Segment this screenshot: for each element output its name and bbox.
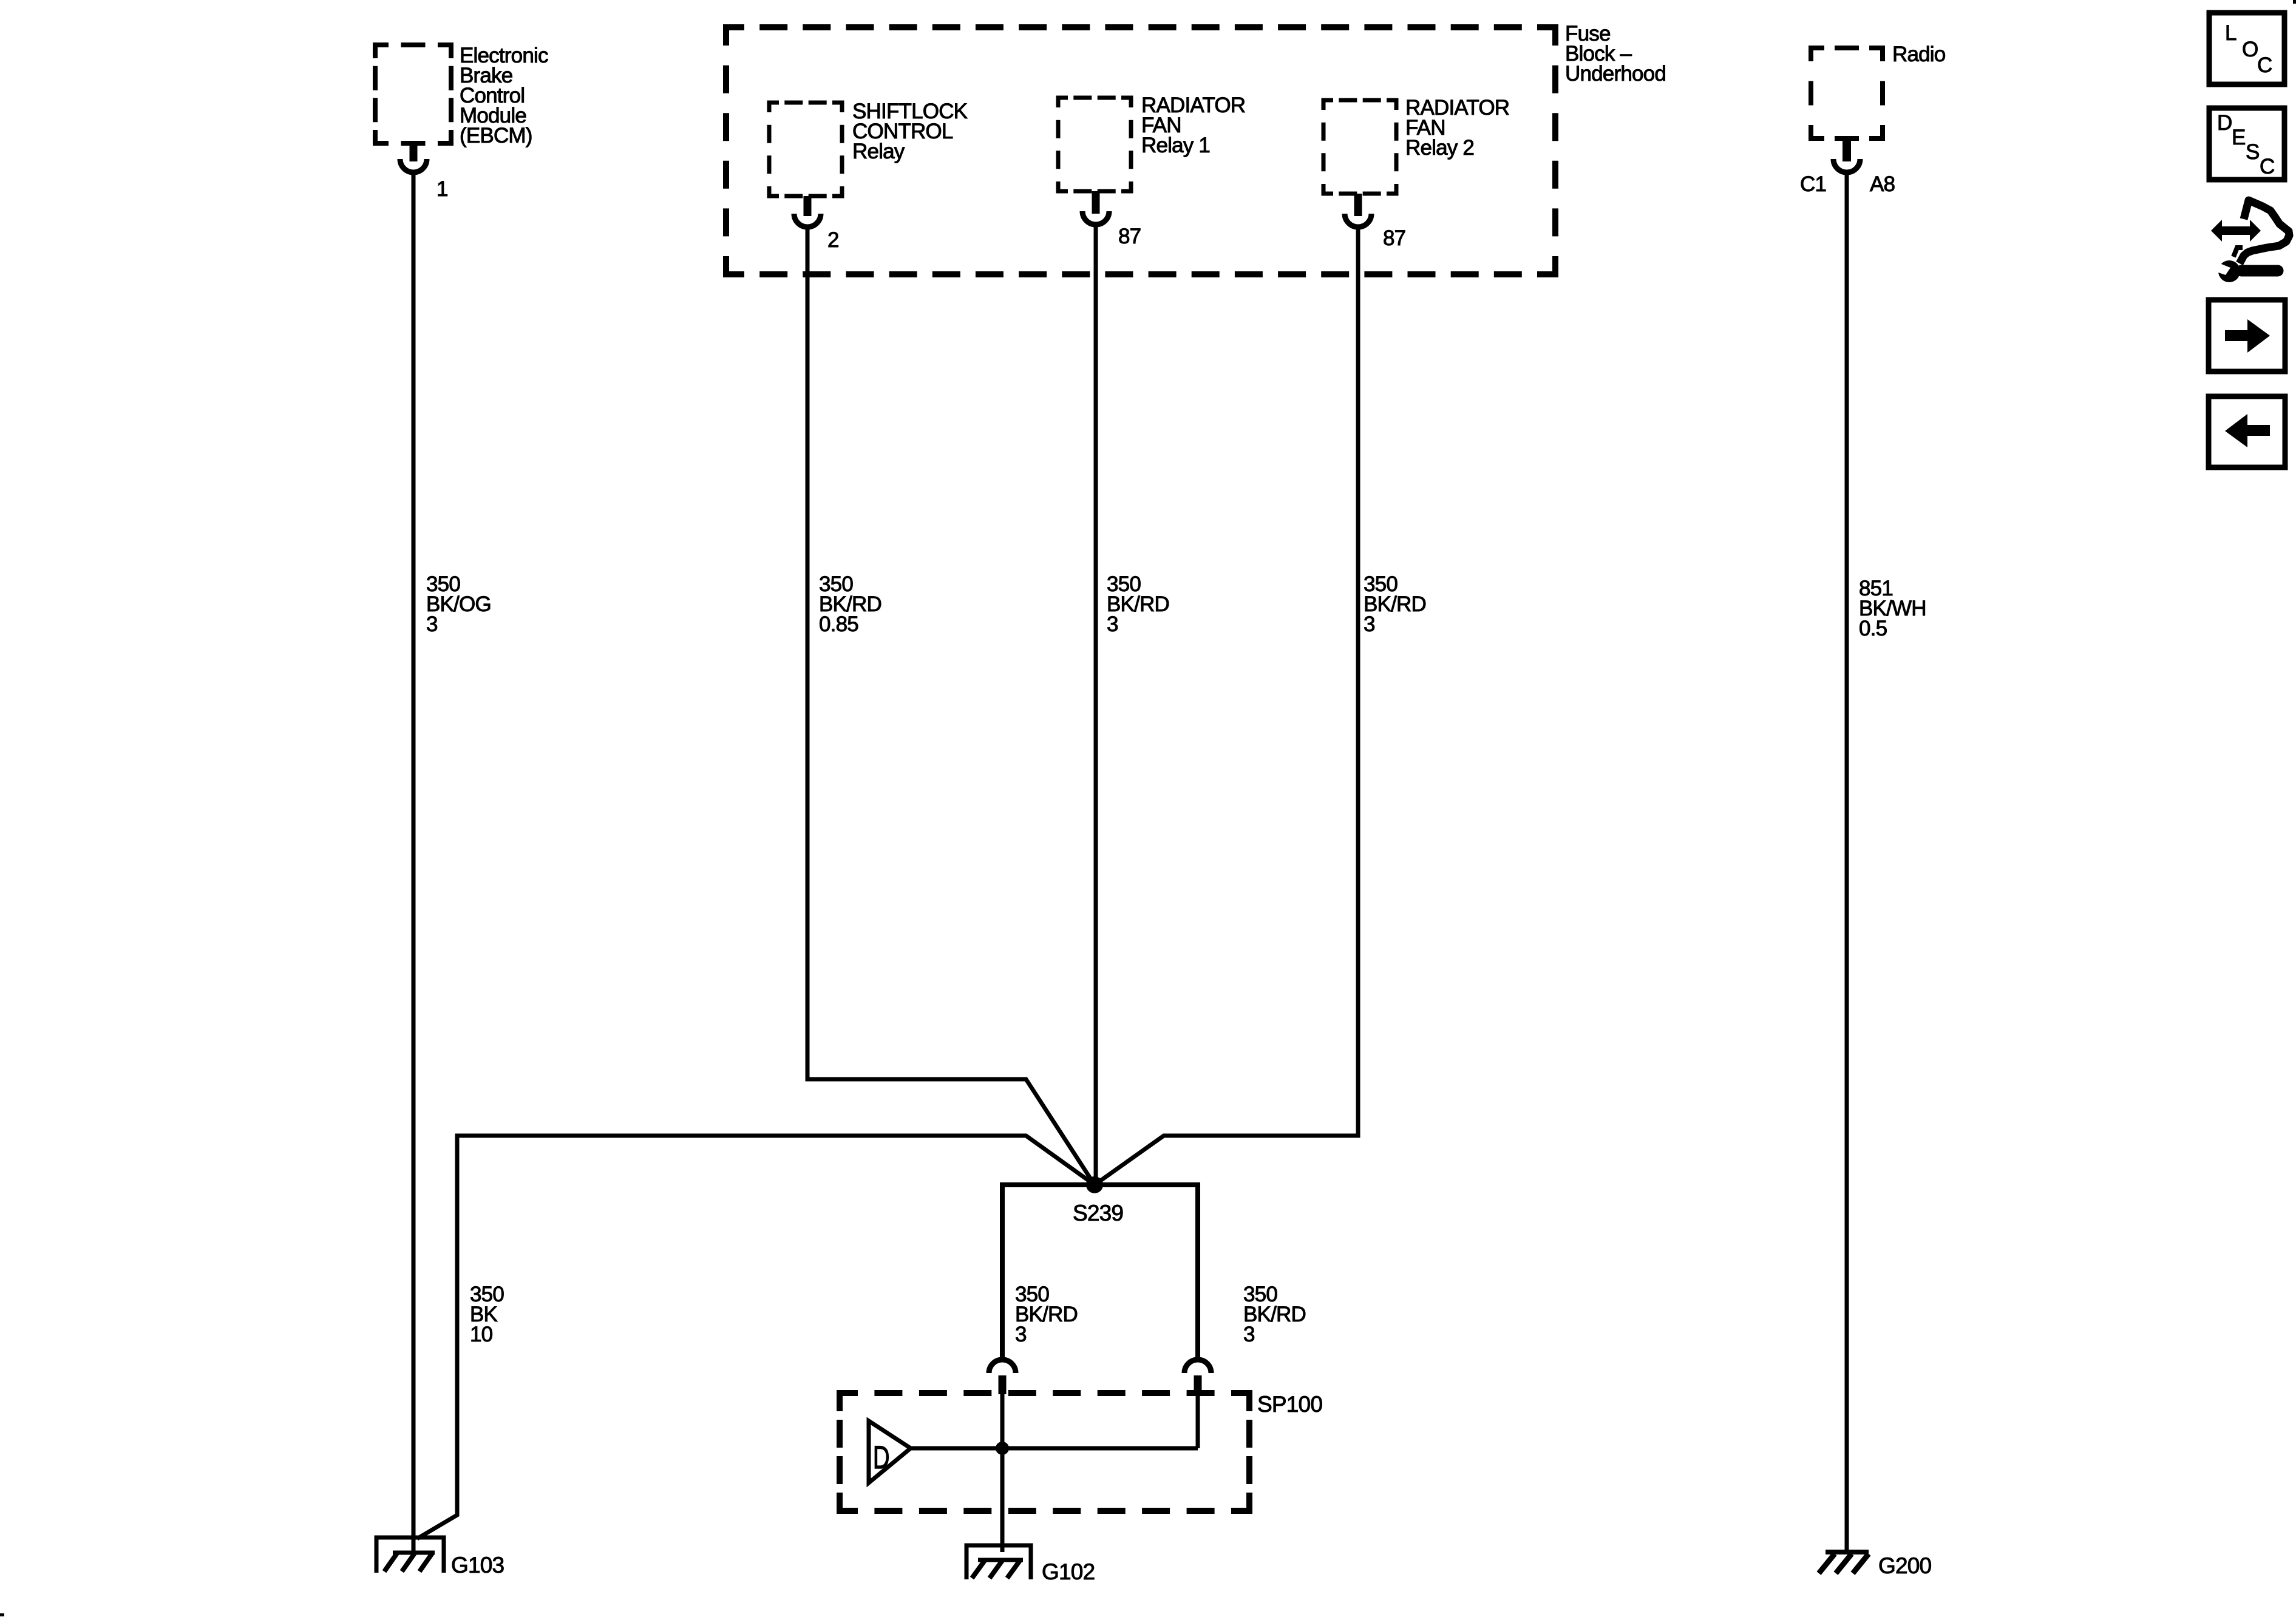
svg-text:C: C	[2260, 155, 2274, 178]
svg-text:87: 87	[1118, 225, 1141, 248]
svg-text:C1: C1	[1800, 172, 1826, 196]
svg-text:O: O	[2242, 38, 2258, 61]
svg-text:E: E	[2232, 126, 2246, 149]
svg-text:3: 3	[1364, 612, 1375, 636]
svg-text:Relay: Relay	[852, 140, 905, 163]
svg-text:G102: G102	[1042, 1559, 1095, 1584]
svg-text:C: C	[2257, 53, 2272, 77]
svg-text:0.85: 0.85	[819, 612, 858, 636]
svg-text:SP100: SP100	[1257, 1392, 1322, 1417]
svg-text:A8: A8	[1870, 172, 1895, 196]
svg-text:S: S	[2246, 140, 2260, 164]
svg-text:Relay 1: Relay 1	[1141, 134, 1210, 157]
svg-text:10: 10	[470, 1323, 493, 1346]
svg-text:3: 3	[1107, 612, 1118, 636]
svg-text:2: 2	[827, 228, 839, 252]
svg-text:S239: S239	[1073, 1201, 1123, 1225]
svg-text:Relay 2: Relay 2	[1405, 136, 1474, 160]
svg-text:1: 1	[436, 177, 448, 201]
svg-text:D: D	[873, 1439, 889, 1476]
svg-text:3: 3	[1243, 1323, 1255, 1346]
svg-text:D: D	[2217, 111, 2232, 135]
svg-text:3: 3	[426, 612, 438, 636]
svg-text:Radio: Radio	[1892, 42, 1945, 66]
svg-text:0.5: 0.5	[1859, 617, 1887, 640]
svg-text:(EBCM): (EBCM)	[460, 124, 532, 147]
svg-text:Underhood: Underhood	[1565, 62, 1666, 86]
svg-text:G200: G200	[1878, 1553, 1932, 1578]
svg-text:L: L	[2225, 21, 2237, 45]
svg-text:87: 87	[1383, 226, 1405, 250]
svg-text:G103: G103	[451, 1553, 504, 1578]
svg-text:3: 3	[1015, 1323, 1027, 1346]
